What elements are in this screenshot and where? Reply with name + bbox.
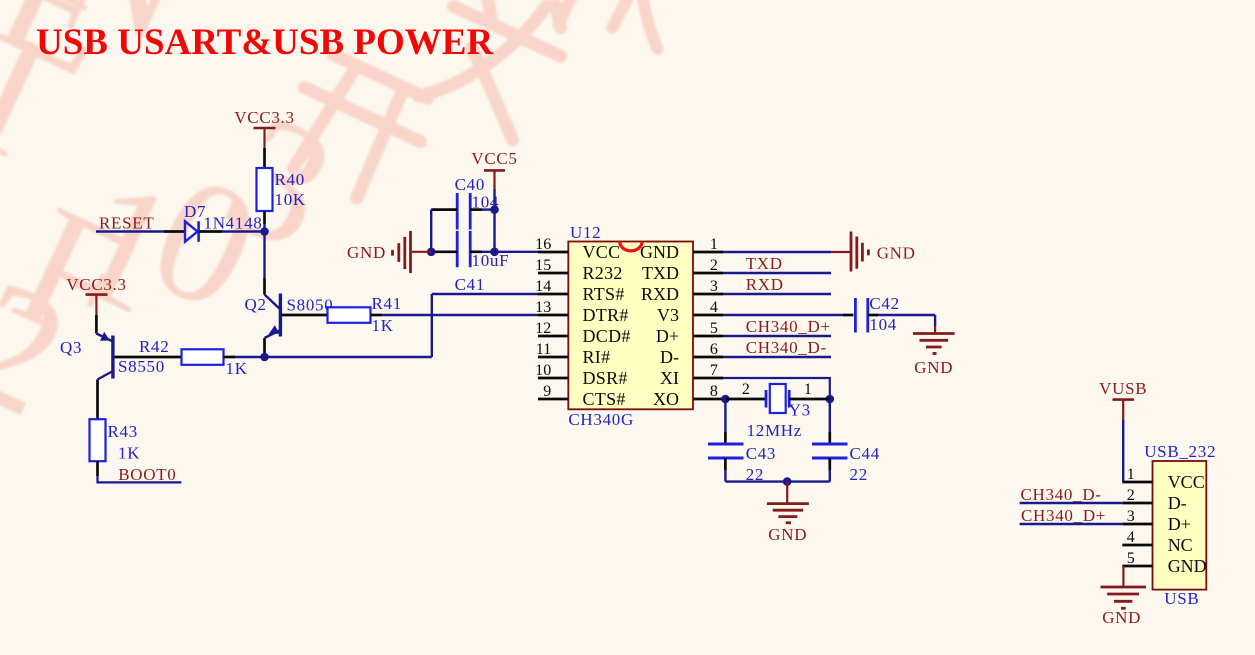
net label RXD <box>746 275 784 294</box>
svg-text:22: 22 <box>850 465 868 484</box>
node C41/pin16 <box>490 248 499 257</box>
svg-text:R40: R40 <box>275 170 305 189</box>
transistor Q3 S8550 <box>60 332 165 419</box>
wire CH340_D- (usb) <box>1020 502 1123 504</box>
wire Q3 base to R42 <box>115 356 182 359</box>
pin 13 DTR# <box>535 299 629 325</box>
pin 10 DSR# <box>535 362 628 388</box>
svg-text:CTS#: CTS# <box>583 389 626 409</box>
pin 4 V3 <box>657 299 723 325</box>
wire pin7 XI elbow <box>723 378 830 399</box>
net label RESET <box>99 214 154 233</box>
svg-text:GND: GND <box>877 244 916 263</box>
svg-text:14: 14 <box>535 278 551 295</box>
wire CH340_D+ <box>723 335 831 337</box>
ground GND (C42) <box>913 315 955 377</box>
svg-text:D+: D+ <box>1168 514 1191 534</box>
resistor R42 1K <box>139 337 248 378</box>
svg-text:U12: U12 <box>570 223 601 242</box>
usb pin 2 D- <box>1122 487 1186 513</box>
power flag VCC3.3 (Q3) <box>66 275 126 315</box>
svg-text:XO: XO <box>653 389 679 409</box>
svg-text:2: 2 <box>742 381 750 398</box>
capacitor C40 104 <box>431 175 499 230</box>
pin 3 RXD <box>641 278 723 304</box>
svg-text:16: 16 <box>535 236 551 253</box>
ground GND (pin 1) <box>723 232 916 272</box>
svg-text:1N4148: 1N4148 <box>204 214 263 233</box>
svg-text:11: 11 <box>536 341 552 358</box>
usb pin 5 GND <box>1122 550 1206 576</box>
svg-text:NC: NC <box>1168 535 1193 555</box>
svg-text:12MHz: 12MHz <box>747 421 802 440</box>
wire node to Q2 collector <box>263 232 265 279</box>
svg-text:8: 8 <box>710 383 718 400</box>
wire R43 to BOOT0 <box>98 461 182 482</box>
svg-text:C40: C40 <box>455 175 485 194</box>
svg-text:RI#: RI# <box>583 347 611 367</box>
svg-text:4: 4 <box>1127 529 1135 546</box>
wire pin8 XO <box>723 398 725 400</box>
net label CH340_D- (usb) <box>1021 485 1102 504</box>
power flag VCC5 <box>471 149 517 189</box>
net label BOOT0 <box>118 465 176 484</box>
pin 12 DCD# <box>535 320 631 346</box>
svg-text:CH340_D-: CH340_D- <box>746 338 827 357</box>
svg-text:GND: GND <box>1102 608 1141 627</box>
svg-text:7: 7 <box>710 362 718 379</box>
svg-text:V3: V3 <box>657 305 679 325</box>
pin 5 D+ <box>656 320 723 346</box>
svg-text:C43: C43 <box>746 444 776 463</box>
wire pin4 V3 to C42 <box>723 314 853 316</box>
svg-text:10uF: 10uF <box>472 251 510 270</box>
svg-text:S8550: S8550 <box>118 357 165 376</box>
svg-text:VUSB: VUSB <box>1099 379 1147 398</box>
node XI/Y3/C44 <box>826 395 835 404</box>
net label CH340_D+ <box>746 317 831 336</box>
svg-text:VCC: VCC <box>583 242 621 262</box>
svg-text:R41: R41 <box>372 294 402 313</box>
capacitor C41 10uF <box>431 231 509 294</box>
svg-text:D-: D- <box>1168 493 1187 513</box>
wire crystal gnd rail <box>725 480 829 482</box>
pin 9 CTS# <box>538 383 626 409</box>
usb pin 3 D+ <box>1122 508 1191 534</box>
svg-text:9: 9 <box>543 383 551 400</box>
svg-text:GND: GND <box>914 358 953 377</box>
svg-text:1K: 1K <box>118 444 140 463</box>
svg-text:R232: R232 <box>583 263 623 283</box>
svg-text:D+: D+ <box>656 326 679 346</box>
pin 11 RI# <box>536 341 611 367</box>
svg-text:VCC3.3: VCC3.3 <box>66 275 126 294</box>
net label CH340_D- <box>746 338 827 357</box>
svg-text:RTS#: RTS# <box>583 284 625 304</box>
capacitor C43 22 <box>708 399 776 484</box>
svg-text:CH340_D-: CH340_D- <box>1021 485 1102 504</box>
svg-text:DCD#: DCD# <box>583 326 631 346</box>
svg-text:10K: 10K <box>275 190 306 209</box>
node gnd rail <box>783 477 792 486</box>
svg-text:6: 6 <box>710 341 718 358</box>
svg-text:CH340_D+: CH340_D+ <box>1021 506 1106 525</box>
svg-text:CH340G: CH340G <box>568 410 634 429</box>
node GND/C41 <box>427 248 436 257</box>
svg-text:Y3: Y3 <box>789 401 811 420</box>
wire VCC5 rail down to C41 <box>493 210 495 252</box>
svg-text:1K: 1K <box>372 316 394 335</box>
svg-text:1: 1 <box>710 236 718 253</box>
resistor R41 1K <box>328 294 402 335</box>
capacitor C44 22 <box>812 399 880 484</box>
wire R42 to Q2 emitter node <box>235 356 265 358</box>
svg-text:GND: GND <box>768 525 807 544</box>
pin 7 XI <box>660 362 723 388</box>
svg-text:XI: XI <box>660 368 679 388</box>
transistor Q2 S8050 <box>245 278 334 353</box>
net label CH340_D+ (usb) <box>1021 506 1106 525</box>
node XO/Y3/C43 <box>721 395 730 404</box>
svg-text:12: 12 <box>535 320 551 337</box>
diode D7 1N4148 <box>164 202 262 242</box>
svg-text:3: 3 <box>710 278 718 295</box>
wire VUSB to pin1 <box>1122 420 1124 482</box>
svg-text:RXD: RXD <box>746 275 784 294</box>
svg-text:RXD: RXD <box>641 284 679 304</box>
net label TXD <box>746 254 783 273</box>
IC U12 CH340G body <box>568 223 693 429</box>
svg-text:TXD: TXD <box>642 263 679 283</box>
wire C40 left down to gnd rail <box>430 210 432 252</box>
ground GND (crystal) <box>767 482 809 544</box>
svg-text:BOOT0: BOOT0 <box>118 465 176 484</box>
pin 6 D- <box>660 341 723 367</box>
svg-text:D-: D- <box>660 347 679 367</box>
svg-text:GND: GND <box>347 243 386 262</box>
usb pin 4 NC <box>1122 529 1192 555</box>
svg-text:R43: R43 <box>108 422 138 441</box>
svg-text:4: 4 <box>710 299 718 316</box>
svg-text:GND: GND <box>640 242 679 262</box>
svg-text:2: 2 <box>1127 487 1135 504</box>
svg-text:VCC3.3: VCC3.3 <box>234 108 294 127</box>
wire CH340_D+ (usb) <box>1020 523 1123 525</box>
svg-text:15: 15 <box>535 257 551 274</box>
pin 2 TXD <box>642 257 723 283</box>
connector USB_232 body <box>1144 442 1216 608</box>
svg-text:13: 13 <box>535 299 551 316</box>
wire RXD <box>723 293 831 295</box>
wire R41 to pin13 DTR# <box>382 314 538 316</box>
svg-text:10: 10 <box>535 362 551 379</box>
svg-text:USB USART&USB POWER: USB USART&USB POWER <box>36 22 494 63</box>
ground GND (left of C41) <box>347 231 431 273</box>
pin 8 XO <box>653 383 723 409</box>
svg-text:TXD: TXD <box>746 254 783 273</box>
power flag VUSB <box>1099 379 1147 420</box>
wire D7 to node <box>222 230 265 232</box>
usb pin 1 VCC <box>1122 466 1204 492</box>
wire VCC3.3 to Q3 <box>95 315 98 334</box>
pin 14 RTS# <box>535 278 625 304</box>
svg-text:5: 5 <box>1127 550 1135 567</box>
wire VCC3.3 to R40 <box>263 148 266 168</box>
svg-text:C44: C44 <box>850 444 880 463</box>
node Q2 emitter <box>260 353 269 362</box>
svg-text:USB: USB <box>1164 589 1199 608</box>
svg-text:Q3: Q3 <box>60 338 82 357</box>
svg-text:GND: GND <box>1168 556 1207 576</box>
svg-text:DTR#: DTR# <box>583 305 629 325</box>
svg-text:1K: 1K <box>226 359 248 378</box>
svg-text:2: 2 <box>710 257 718 274</box>
crystal Y3 12MHz <box>725 381 829 440</box>
svg-text:R42: R42 <box>139 337 169 356</box>
svg-text:5: 5 <box>710 320 718 337</box>
wire VCC5 to C40 node <box>493 189 495 210</box>
svg-text:CH340_D+: CH340_D+ <box>746 317 831 336</box>
svg-text:1: 1 <box>804 381 812 398</box>
wire CH340_D- <box>723 356 831 358</box>
wire node to pin14 RTS# <box>265 294 539 357</box>
svg-text:RESET: RESET <box>99 214 154 233</box>
ground GND (usb pin5) <box>1101 566 1147 627</box>
svg-text:Q2: Q2 <box>245 295 267 314</box>
pin 15 R232 <box>535 257 623 283</box>
svg-text:3: 3 <box>1127 508 1135 525</box>
svg-text:USB_232: USB_232 <box>1144 442 1216 461</box>
node R40/D7/Q2 <box>260 227 269 236</box>
svg-text:104: 104 <box>869 315 897 334</box>
svg-text:VCC: VCC <box>1168 472 1205 492</box>
svg-text:DSR#: DSR# <box>583 368 628 388</box>
svg-text:VCC5: VCC5 <box>471 149 517 168</box>
wire C41 to pin16 VCC <box>482 251 538 253</box>
svg-text:1: 1 <box>1127 466 1135 483</box>
pin 16 VCC <box>535 236 620 262</box>
svg-text:C42: C42 <box>869 294 899 313</box>
node C40/VCC5 <box>490 205 499 214</box>
power flag VCC3.3 (R40) <box>234 108 294 148</box>
svg-text:C41: C41 <box>455 275 485 294</box>
pin 1 GND <box>640 236 723 262</box>
wire TXD <box>723 272 831 274</box>
wire RESET <box>96 230 164 232</box>
capacitor C42 104 <box>855 294 935 334</box>
wire Q2 base to R41 <box>282 314 328 317</box>
resistor R43 1K <box>90 419 141 462</box>
title <box>36 22 494 63</box>
resistor R40 10K <box>257 168 306 232</box>
